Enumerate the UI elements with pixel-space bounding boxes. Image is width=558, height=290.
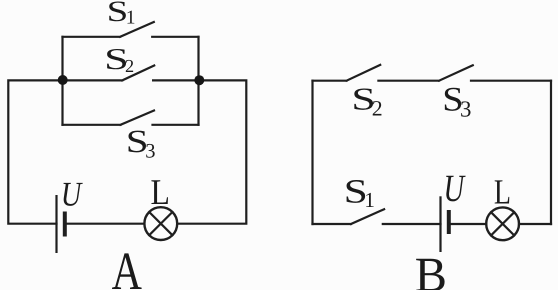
svg-text:A: A [112,241,142,290]
svg-text:2: 2 [125,56,134,76]
svg-text:1: 1 [126,8,136,29]
svg-text:U: U [444,168,466,210]
svg-text:U: U [61,175,83,213]
svg-text:2: 2 [372,97,383,121]
svg-text:3: 3 [460,96,471,121]
svg-text:L: L [151,172,170,212]
svg-text:3: 3 [145,140,155,162]
svg-text:L: L [494,173,511,212]
svg-text:B: B [415,247,447,290]
svg-text:1: 1 [364,188,375,212]
